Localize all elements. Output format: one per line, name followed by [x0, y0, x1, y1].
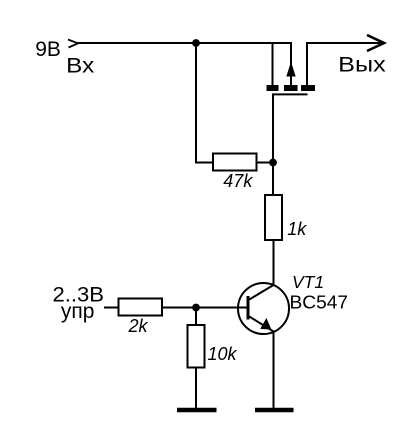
svg-text:BC547: BC547 — [290, 292, 349, 313]
svg-text:VT1: VT1 — [292, 272, 324, 292]
svg-text:47k: 47k — [223, 171, 253, 191]
svg-text:Вх: Вх — [66, 55, 95, 78]
svg-text:10k: 10k — [208, 344, 238, 364]
svg-text:упр: упр — [61, 300, 95, 323]
svg-text:1k: 1k — [287, 219, 307, 239]
svg-text:2k: 2k — [128, 316, 149, 336]
svg-text:9В: 9В — [35, 38, 61, 61]
svg-text:Вых: Вых — [338, 53, 386, 76]
